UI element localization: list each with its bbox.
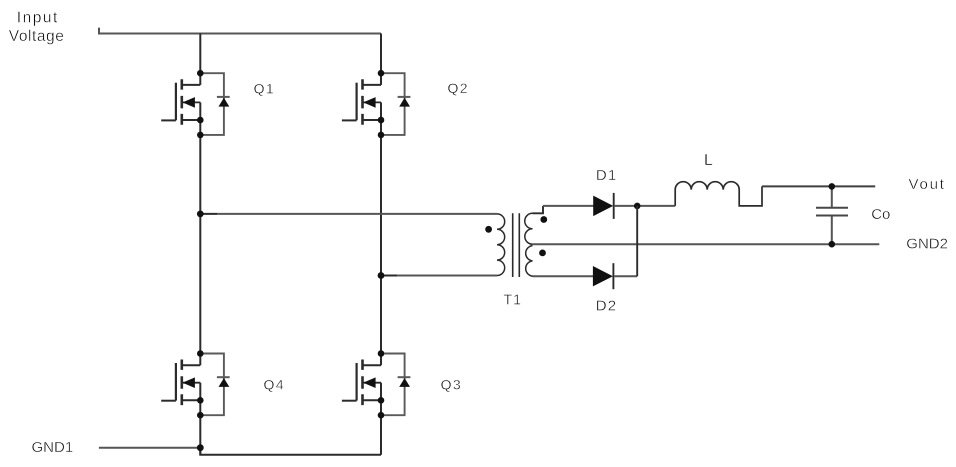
svg-text:Q1: Q1 — [254, 81, 275, 97]
svg-text:GND1: GND1 — [32, 439, 74, 456]
transformer T1 secondary top winding — [525, 213, 533, 244]
transistor Q2 — [342, 73, 381, 135]
diode D2 — [593, 267, 611, 286]
node GND1 dot — [197, 444, 204, 451]
wire GND2 rail (center tap) — [533, 243, 880, 245]
wire secondary top lead jog — [533, 206, 544, 213]
svg-text:Q4: Q4 — [264, 377, 285, 393]
node GND2-Co dot — [829, 241, 836, 248]
wire D2 cathode — [614, 275, 637, 277]
transformer T1 primary winding — [497, 214, 505, 276]
transformer core — [513, 213, 520, 277]
wire mid node A to primary top — [200, 213, 217, 215]
transistor Q3 — [342, 354, 381, 416]
node Vout-Co dot — [829, 183, 836, 190]
transistor Q1 — [161, 73, 200, 135]
svg-text:Co: Co — [871, 206, 890, 223]
svg-text:T1: T1 — [503, 293, 522, 309]
wire D2 riser — [636, 206, 638, 276]
transistor Q4 — [161, 354, 200, 416]
capacitor Co — [831, 186, 833, 244]
wire GND1 lead — [99, 447, 200, 449]
wire D1 cathode to node — [615, 205, 676, 207]
wire D2 anode — [533, 275, 594, 277]
wire left leg vertical — [199, 34, 201, 455]
svg-text:Input: Input — [17, 10, 59, 27]
wire right leg vertical — [380, 34, 382, 455]
inductor L — [675, 182, 762, 206]
transformer T1 secondary bottom winding — [526, 246, 533, 277]
svg-text:Vout: Vout — [909, 176, 946, 193]
wire D1 anode — [543, 205, 594, 207]
svg-text:D2: D2 — [596, 298, 618, 315]
phase dot secondary top — [540, 216, 547, 223]
wire Vout rail — [762, 185, 875, 187]
wire mid node B to primary bottom — [381, 275, 397, 277]
node B dot (right mid) — [378, 272, 385, 279]
svg-text:L: L — [704, 152, 713, 169]
node A dot (left mid) — [197, 211, 204, 218]
phase dot primary — [485, 226, 492, 233]
svg-text:Voltage: Voltage — [9, 28, 65, 45]
svg-text:D1: D1 — [596, 167, 618, 184]
diode D1 — [594, 197, 612, 216]
phase dot secondary bottom — [539, 250, 546, 257]
input voltage top wire — [99, 28, 381, 34]
node D1/D2 junction dot — [634, 203, 641, 210]
svg-text:Q3: Q3 — [441, 377, 462, 393]
wire bottom jog — [200, 448, 381, 455]
svg-text:GND2: GND2 — [906, 235, 948, 252]
svg-text:Q2: Q2 — [448, 80, 469, 96]
